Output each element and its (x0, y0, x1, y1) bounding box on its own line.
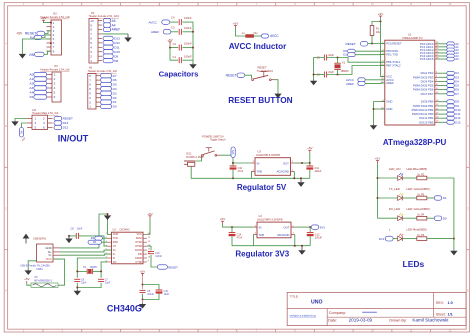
wire GND pin22 (374, 108, 385, 110)
net flag A0 (U1) (447, 42, 459, 46)
svg-text:TX_LED: TX_LED (389, 187, 400, 191)
wire +5V decoupling stem (142, 276, 144, 289)
svg-text:IN: IN (259, 226, 262, 230)
junction H2 pin1 (50, 22, 52, 24)
svg-text:10k: 10k (376, 30, 381, 34)
junction crystal bottom (337, 74, 339, 76)
wire D13 to L LED (393, 238, 398, 240)
ground (P2) (124, 34, 131, 42)
svg-text:22pF: 22pF (105, 282, 111, 285)
svg-text:D2: D2 (113, 96, 117, 100)
svg-text:USB1: USB1 (36, 267, 43, 271)
svg-text:2019-03-09: 2019-03-09 (349, 317, 373, 322)
ground (U2 decoupling) (139, 303, 146, 308)
junction decoupling top (142, 284, 144, 286)
net flag D10 (U1) (447, 108, 461, 112)
net flag D0 (U2) (91, 236, 103, 240)
wire C8 to V3 pin (79, 236, 108, 246)
power +5V (H2 pin1) (41, 16, 46, 23)
svg-text:A5: A5 (455, 57, 459, 61)
wire L1 to AVCC (254, 35, 262, 37)
LED RX_LED (398, 213, 404, 220)
net flag D3 (H1) (101, 91, 117, 95)
ground (reg5) (297, 178, 304, 187)
wire C1 to bus (183, 59, 194, 61)
svg-text:Date:: Date: (328, 318, 337, 322)
ground (H3) (11, 121, 18, 126)
net flag A5 (P3) (29, 95, 46, 99)
svg-text:TS-1102-5016: TS-1102-5016 (257, 69, 274, 73)
net flag D13 (H3) (54, 121, 69, 125)
svg-text:D3: D3 (113, 91, 117, 95)
wire RESET to switch (245, 75, 252, 78)
wire R2 to right bus (427, 178, 454, 239)
wire caps to gnd rail (76, 283, 78, 290)
svg-text:+5V: +5V (233, 22, 238, 26)
wire R1 to RESET pin (372, 36, 385, 44)
svg-text:LED-Yellow(0805): LED-Yellow(0805) (407, 207, 430, 211)
net flag D5 (H1) (101, 82, 117, 86)
junction +5V branch (169, 47, 171, 49)
svg-text:D1: D1 (343, 53, 347, 57)
wire VIN node to U3 IN (233, 162, 251, 164)
svg-text:DSR#: DSR# (135, 257, 142, 260)
svg-text:+5V: +5V (378, 12, 383, 16)
wire C14 to rail (231, 236, 233, 246)
svg-text:DIG13 PB5: DIG13 PB5 (419, 120, 434, 124)
svg-text:47uF: 47uF (237, 237, 243, 240)
junction C8 gnd (68, 235, 70, 237)
junction X2 right node (100, 270, 102, 272)
svg-text:Drawn By:: Drawn By: (389, 318, 407, 322)
svg-text:+5V: +5V (375, 157, 380, 161)
svg-text:Header-Female 2.54_1x8: Header-Female 2.54_1x8 (88, 69, 117, 73)
power +5V (LEDs) (375, 157, 380, 164)
net flag D12 (U1) (447, 116, 461, 120)
wire GND pins to ground (374, 102, 385, 125)
svg-text:D6: D6 (113, 78, 117, 82)
svg-text:100nF: 100nF (155, 255, 162, 258)
wire +5V bus (LEDs) (377, 163, 379, 218)
capacitor C12 100uF (306, 166, 313, 170)
wire C3 to bus (183, 31, 194, 33)
net flag D4 (U1) (447, 79, 460, 83)
U2 pins (106, 233, 151, 264)
svg-text:100uF: 100uF (315, 237, 323, 240)
svg-text:100nF: 100nF (184, 16, 192, 20)
connector H1 Header-Female 2.54_1x8 (88, 74, 100, 110)
power +5V (U2 decoupling) (140, 269, 145, 276)
net flag AREF (U1) (346, 81, 365, 85)
svg-text:LED-Red(0805): LED-Red(0805) (407, 227, 427, 231)
wire D0 to PD0 (355, 50, 385, 52)
svg-text:RX_LED: RX_LED (389, 207, 400, 211)
svg-text:RESET: RESET (168, 265, 178, 269)
wire D1 to PD1 (355, 54, 385, 56)
junction (H2 pin6) (50, 42, 52, 44)
capacitor C9 100nF (140, 290, 146, 292)
wire VIN to H2 pin8 (44, 51, 51, 54)
LED L (398, 234, 404, 241)
wire crystal bottom stem (337, 69, 339, 74)
crystal X1 16MHz (334, 63, 341, 69)
wire C8 left to ground (69, 235, 76, 237)
svg-text:H1: H1 (89, 66, 93, 70)
U1 left pins (381, 42, 402, 112)
svg-text:ADJ/GND: ADJ/GND (277, 170, 289, 174)
svg-text:D0: D0 (91, 236, 95, 240)
wire U4 TAB to rail (253, 235, 255, 246)
svg-text:C: C (5, 207, 7, 210)
svg-text:D4: D4 (113, 87, 117, 91)
net flag A3 (U1) (447, 51, 459, 55)
svg-text:C8: C8 (71, 226, 75, 230)
svg-text:D+: D+ (113, 249, 117, 252)
wire U3 ADJ to rail (293, 171, 295, 178)
IC U2 CH340G body (112, 232, 144, 264)
svg-text:10: 10 (90, 19, 94, 23)
wire R6 to right bus (427, 238, 454, 240)
svg-text:10nF: 10nF (77, 226, 83, 230)
net flag AVCC (inductor) (261, 34, 279, 38)
capacitor C13 100uF (307, 233, 314, 237)
net flag RESET (button) (226, 73, 245, 77)
net flag A1 (U1) (447, 45, 459, 49)
net flag RESET (U2) (157, 265, 178, 270)
svg-text:ADJ/GND: ADJ/GND (277, 233, 289, 237)
wire down to C13 (309, 227, 311, 233)
junction R1 RESET (371, 43, 373, 45)
junction rail gnd tap (reg33) (301, 245, 303, 247)
wire bus to LED_ON (378, 177, 398, 179)
net flag D9 (P2) (103, 54, 118, 58)
wire C5 to XTAL1 (327, 58, 385, 63)
resistor R6 1k (417, 237, 427, 241)
svg-text:D13: D13 (379, 237, 385, 241)
junction rail gnd tap (300, 177, 302, 179)
net flag VIN (H2) (29, 52, 44, 57)
svg-text:100uF: 100uF (184, 54, 192, 58)
U4 pin names (255, 225, 295, 237)
svg-text:USB-B(TH): USB-B(TH) (33, 236, 46, 240)
svg-text:RXD: RXD (113, 241, 118, 244)
U3 pin names (253, 161, 294, 174)
svg-text:GND: GND (386, 107, 392, 111)
svg-text:LM1117MPX-3.3/NOPB: LM1117MPX-3.3/NOPB (257, 219, 283, 222)
svg-text:VCC: VCC (46, 257, 52, 261)
wire USB D+ to U2 (60, 250, 112, 252)
wire U2 GND to ground (108, 214, 112, 234)
svg-text:AREF: AREF (112, 28, 121, 32)
net flag A1 (P3) (29, 77, 46, 81)
svg-text:DTR#: DTR# (135, 245, 142, 248)
junction rail ADJ (reg33) (294, 245, 296, 247)
svg-text:+5V: +5V (41, 16, 46, 20)
svg-text:C2: C2 (173, 42, 177, 46)
wire +5V to R1 and VCC (372, 19, 381, 26)
svg-text:+5V: +5V (140, 269, 145, 273)
wire +5V to U4 IN (223, 224, 254, 227)
svg-text:+5V: +5V (24, 277, 29, 281)
wire AREF to pin (365, 82, 385, 84)
svg-text:PC6 RESET: PC6 RESET (386, 42, 402, 46)
net flag D2 (U1) (447, 71, 460, 75)
svg-text:XI: XI (113, 257, 116, 260)
connector P3 Header-Female 2.54_1x6 (47, 72, 61, 102)
svg-text:ATMEGA328P-PU: ATMEGA328P-PU (402, 37, 423, 40)
net flag D1 (U1 TXD) (343, 53, 355, 57)
svg-text:Company:: Company: (329, 311, 346, 315)
svg-text:1k_R5: 1k_R5 (417, 193, 425, 196)
svg-text:REV:: REV: (436, 301, 444, 305)
svg-text:D9: D9 (114, 54, 118, 58)
svg-text:R232: R232 (136, 237, 143, 240)
svg-text:1/1: 1/1 (448, 313, 453, 317)
power +5V (capacitors) (167, 38, 172, 45)
capacitor C10b 10uF (156, 290, 163, 294)
junction +5V branch (U1) (380, 21, 382, 23)
svg-text:D0: D0 (113, 105, 117, 109)
wire P2 GND pin (102, 33, 128, 35)
net flag D13 (P2) (103, 36, 120, 40)
wire down to C14 (231, 227, 233, 233)
U4 pin stubs (253, 227, 295, 235)
net flag 3V3 (reg33) (311, 225, 325, 230)
capacitor C16 100nF (148, 252, 154, 254)
wire LED to R4 (403, 217, 417, 219)
svg-text:A0: A0 (29, 73, 33, 77)
svg-text:16MHZ: 16MHZ (341, 70, 350, 73)
svg-text:D: D (5, 290, 7, 293)
wire fuse to USB VCC (53, 259, 65, 285)
net flag A0 (P3) (29, 72, 46, 76)
svg-text:Header-Female 2.54_1x6: Header-Female 2.54_1x6 (41, 68, 70, 72)
svg-text:LEDs: LEDs (403, 259, 425, 269)
svg-text:DCD#: DCD# (135, 249, 142, 252)
net flag D1 (U2) (88, 240, 102, 244)
net flag D5 (U1) (447, 84, 460, 88)
wire U4 OUT to 3V3 (295, 226, 310, 228)
wire down to C10 (232, 163, 234, 166)
svg-text:D1: D1 (113, 100, 117, 104)
capacitor C8 10nF (76, 233, 78, 239)
net flag D8 (P2) (103, 58, 118, 62)
net flag D13 (LEDs) (379, 236, 393, 241)
resistor R5 1k (417, 196, 427, 200)
wire LED to R5 (403, 197, 417, 199)
net flag D2 (H1) (101, 96, 117, 100)
net flag D0 (H1) (101, 104, 117, 108)
svg-text:Toggle Switch: Toggle Switch (210, 139, 226, 142)
svg-text:D7: D7 (113, 74, 117, 78)
net flag A5 (U1) (447, 57, 459, 61)
net flag D12 (P2) (103, 41, 120, 45)
svg-text:100nF: 100nF (184, 42, 192, 46)
connector H3 Header-Male 2.54_2x3 (27, 115, 53, 130)
net flag D9 (U1) (447, 104, 460, 108)
wire bus to TX_LED (378, 197, 398, 199)
svg-text:LED_ON: LED_ON (389, 167, 401, 171)
wire D1 to RXD (102, 241, 108, 243)
wire AVCC to C4 (170, 21, 179, 23)
svg-text:Kamil Stachowski: Kamil Stachowski (412, 317, 448, 322)
svg-text:MF-MSMD050-2: MF-MSMD050-2 (34, 279, 52, 282)
wire C2 to bus (183, 47, 194, 49)
wire U3 OUT to +5V (295, 162, 310, 164)
svg-text:RESET: RESET (63, 117, 73, 121)
svg-text:Regulator 3V3: Regulator 3V3 (235, 249, 289, 258)
svg-text:1k_R4: 1k_R4 (417, 214, 425, 217)
svg-text:OUT: OUT (283, 161, 289, 165)
junction right bus (453, 238, 455, 240)
svg-text:10u: 10u (253, 31, 258, 35)
net flag AVCC (U1) (346, 78, 365, 82)
wire C13 to rail (309, 236, 311, 246)
bottom rail (reg33) (232, 245, 310, 247)
U3 pin stubs (251, 163, 295, 171)
wire right bus to ground (453, 239, 455, 250)
junction USB gnd (107, 213, 109, 215)
svg-text:C1: C1 (173, 55, 177, 59)
junction rail ADJ (293, 177, 295, 179)
wire switch to ground (275, 80, 279, 93)
svg-text:AREF: AREF (386, 81, 394, 85)
wire +5V to fuse (27, 283, 31, 285)
net flag A4 (P2) (103, 23, 116, 27)
wire C16 to RESET (151, 255, 157, 267)
net flag AREF (capacitors) (151, 30, 171, 34)
svg-text:AREF: AREF (151, 30, 159, 34)
wire C6 left to gnd bus (314, 74, 325, 76)
svg-text:RESET: RESET (346, 42, 356, 46)
svg-text:OUT: OUT (283, 226, 289, 230)
svg-text:UNO: UNO (311, 300, 323, 306)
net flag D0 (LEDs) (434, 216, 447, 220)
ground (reset button) (274, 93, 281, 98)
svg-text:D1: D1 (443, 196, 447, 200)
LED LED_ON (398, 173, 404, 180)
junction C2 bus (192, 47, 194, 49)
wire AREF to C3 (171, 31, 179, 33)
wire crystal top stem (337, 58, 339, 64)
svg-text:VIN: VIN (232, 150, 235, 154)
capacitor C7 22pF (98, 279, 104, 281)
svg-text:47uF: 47uF (238, 170, 244, 173)
junction X2 left node (76, 270, 78, 272)
net flag D7 (U1) (447, 92, 460, 96)
wire H3 pin3 to 5V flag (22, 123, 28, 128)
net flag A4 (P3) (29, 90, 46, 94)
junction gnd bus crystal (313, 74, 315, 76)
net flag D1 (LEDs) (434, 196, 447, 200)
wire D0 to TXD (102, 237, 107, 239)
wire USB D- to U2 (60, 254, 112, 255)
voltage regulator U4 body (257, 222, 291, 238)
wire RESET to H2 pin3 (45, 31, 51, 34)
svg-text:C4: C4 (171, 16, 175, 20)
wire C10 to bottom rail (232, 170, 234, 179)
wire LED to R2 (403, 177, 417, 179)
svg-text:VIN: VIN (29, 53, 35, 57)
svg-text:A5: A5 (29, 95, 33, 99)
svg-text:RTS#: RTS# (135, 241, 142, 244)
connector DC1 barrel jack DC005 (184, 161, 195, 166)
svg-text:Capacitors: Capacitors (159, 70, 199, 79)
net flag D6 (H1) (101, 78, 117, 82)
net flag AREF (P2) (103, 27, 120, 31)
svg-text:D: D (467, 290, 469, 293)
net flag A2 (P3) (29, 81, 46, 85)
svg-text:U4: U4 (259, 214, 263, 218)
svg-text:+5V: +5V (16, 31, 23, 35)
net flag D11 (U1) (447, 112, 461, 116)
svg-text:C3: C3 (171, 25, 175, 29)
junction C14 tap (231, 226, 233, 228)
svg-text:TAB: TAB (259, 233, 264, 237)
wire XO to crystal right (101, 262, 107, 278)
svg-text:IN/OUT: IN/OUT (58, 133, 89, 143)
wire decoupling top rail (143, 285, 160, 291)
svg-text:C: C (467, 207, 469, 210)
wire C5 left to gnd bus (314, 58, 325, 80)
svg-text:AREF: AREF (346, 82, 354, 86)
svg-text:100nF: 100nF (147, 293, 154, 296)
svg-text:5V: 5V (20, 130, 23, 133)
ground (U2 top) (104, 214, 111, 220)
title block frame (287, 292, 466, 325)
svg-text:CH340G: CH340G (107, 304, 142, 314)
fuse U5 (31, 283, 58, 287)
wire gnd stem (decoupling) (142, 300, 144, 304)
svg-text:22pF: 22pF (81, 282, 87, 285)
ground (USB shield) (25, 270, 32, 275)
power +5V (fuse) (24, 277, 29, 283)
svg-text:szukajcie.a.znajdziecie.go: szukajcie.a.znajdziecie.go (290, 316, 317, 318)
capacitor C2 (179, 45, 181, 51)
svg-text:TAB: TAB (257, 170, 262, 174)
svg-text:Header-Female 2.54_1x10: Header-Female 2.54_1x10 (89, 14, 120, 18)
svg-text:TXD: TXD (113, 237, 118, 240)
LED TX_LED (398, 193, 404, 200)
junction gnd rail (X2) (76, 287, 78, 289)
net flag D8 (U1) (447, 100, 460, 104)
capacitor C14 47uF (229, 233, 236, 237)
wire +5V to U2 VCC (147, 219, 150, 235)
svg-text:A4: A4 (29, 91, 33, 95)
svg-text:PC5 ADC5: PC5 ADC5 (420, 57, 434, 61)
svg-text:U2: U2 (113, 228, 117, 232)
net flag D7 (H1) (101, 74, 117, 78)
net flag 5V (H2) (30, 35, 42, 39)
svg-text:IN: IN (257, 161, 260, 165)
svg-text:D13: D13 (63, 121, 69, 125)
svg-text:RESET: RESET (226, 73, 237, 77)
net flag D12 (H3) (54, 125, 69, 129)
pushbutton SW1 RESET TS-1102-5016 (252, 71, 275, 80)
svg-text:LED-Blue(0805): LED-Blue(0805) (407, 167, 428, 171)
svg-text:XO: XO (113, 261, 117, 264)
wire H2 pin5 to ground (22, 39, 51, 53)
svg-text:LED-Yellow(0805): LED-Yellow(0805) (407, 187, 430, 191)
svg-text:A4: A4 (112, 23, 116, 27)
capacitor C3 (179, 29, 181, 35)
junction C10 tap (232, 162, 234, 164)
svg-text:AVCC Inductor: AVCC Inductor (229, 42, 287, 51)
svg-text:Regulator 5V: Regulator 5V (237, 183, 287, 192)
wire R5 to D1 (427, 197, 434, 199)
svg-text:+5V: +5V (147, 212, 152, 216)
svg-text:TITLE:: TITLE: (290, 294, 299, 298)
